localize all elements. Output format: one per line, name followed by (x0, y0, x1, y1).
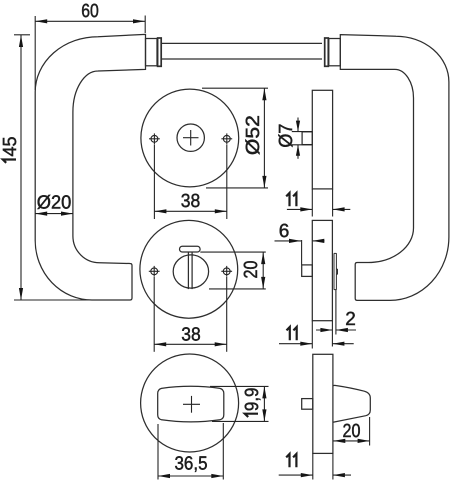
dimension 2 (316, 290, 356, 347)
side view C spindle stub (302, 399, 313, 410)
thumbturn disc (173, 255, 208, 288)
svg-text:38: 38 (181, 323, 201, 344)
rosette A (key rosette) (141, 89, 239, 187)
dimension 19,9 (210, 386, 269, 421)
dimension 6 (275, 220, 325, 265)
svg-text:Ø7: Ø7 (275, 124, 296, 148)
dimension Ø7 (275, 118, 312, 159)
dimension 20 (knob projection) (333, 417, 369, 446)
left lever handle (35, 16, 145, 300)
right handle collar (329, 39, 341, 66)
svg-text:60: 60 (81, 0, 99, 21)
side view A plate (312, 90, 332, 189)
svg-text:20: 20 (240, 261, 261, 279)
svg-text:9,9: 9,9 (241, 388, 262, 412)
svg-text:36,5: 36,5 (175, 452, 208, 473)
dimension 11 row C (279, 453, 351, 479)
rosette C (blind/emergency rosette) (141, 354, 239, 452)
dimension 38 row B (154, 277, 227, 352)
svg-text:20: 20 (343, 420, 361, 441)
screw A left (149, 133, 160, 144)
right handle ring (325, 38, 329, 66)
thumbturn cap (180, 246, 201, 252)
dimension 60 (35, 0, 145, 33)
rosette B (WC rosette) (140, 220, 238, 318)
svg-text:45: 45 (0, 137, 20, 157)
side view B turn stub (302, 265, 313, 277)
thumbturn bar (188, 252, 192, 289)
left handle collar (146, 39, 158, 66)
spindle (162, 43, 322, 59)
svg-text:6: 6 (279, 220, 290, 241)
dimension Ø52 (202, 88, 268, 188)
svg-text:Ø20: Ø20 (37, 191, 72, 212)
dimension 36,5 (158, 423, 223, 480)
underlay plate 2mm (334, 253, 338, 290)
screw B left (149, 266, 160, 277)
dimension 11 row A (286, 189, 350, 217)
right lever handle (340, 35, 449, 301)
screw B right (221, 266, 232, 277)
left handle ring (158, 38, 162, 66)
emergency knob cone (333, 385, 370, 422)
side view A spindle stub (302, 132, 312, 145)
svg-text:38: 38 (181, 190, 201, 211)
dimension 38 row A (154, 145, 226, 220)
dimension 145 (0, 35, 92, 300)
dimension 11 row B (279, 321, 354, 349)
dimension 20 (thumbturn height) (200, 252, 265, 289)
rosette A hub circle (177, 124, 204, 151)
side view B plate (312, 220, 332, 320)
svg-text:2: 2 (345, 308, 356, 329)
screw A right (221, 133, 232, 144)
emergency turn pillow (158, 386, 224, 422)
dimension Ø20 (35, 191, 73, 215)
svg-text:Ø52: Ø52 (242, 115, 263, 155)
side view C plate (313, 354, 333, 453)
